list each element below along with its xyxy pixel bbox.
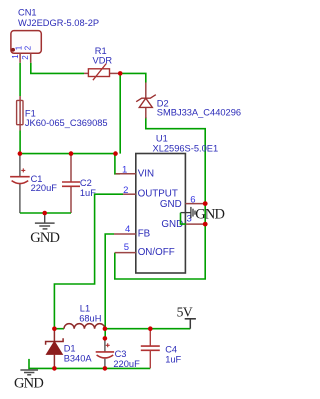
- junction D1 anode on ground rail: [52, 366, 57, 371]
- junction C3 bottom on ground rail: [103, 366, 108, 371]
- junction L1/FB output node: [103, 326, 108, 331]
- wire FB down to output node: [105, 234, 114, 338]
- svg-text:R1: R1: [95, 46, 107, 56]
- pin 1 VIN: [116, 173, 136, 175]
- wire rail to VIN pin: [115, 154, 120, 174]
- wire left gnd stub: [28, 359, 30, 370]
- junction R1/D2/VIN node: [118, 71, 123, 76]
- svg-text:U1: U1: [156, 134, 168, 144]
- capacitor C3: [96, 338, 140, 369]
- wire R1 to node A: [118, 73, 146, 82]
- svg-text:220uF: 220uF: [31, 183, 58, 193]
- varistor R1: [84, 46, 118, 80]
- power flag 5V: [177, 305, 196, 329]
- junction C2 on VIN rail: [69, 151, 74, 156]
- pin 4 FB: [114, 233, 136, 235]
- svg-text:ON/OFF: ON/OFF: [138, 247, 175, 258]
- junction dot gnd rail: [42, 211, 47, 216]
- svg-text:2: 2: [24, 45, 33, 50]
- svg-text:68uH: 68uH: [79, 313, 101, 323]
- fuse F1: [17, 96, 108, 131]
- svg-text:2: 2: [123, 185, 128, 196]
- svg-text:GND: GND: [160, 199, 182, 210]
- svg-text:1uF: 1uF: [80, 188, 96, 198]
- junction F1/C1 on VIN rail: [18, 151, 23, 156]
- svg-text:GND: GND: [14, 376, 43, 392]
- svg-text:1: 1: [15, 45, 24, 50]
- svg-text:F1: F1: [25, 108, 36, 118]
- svg-text:2: 2: [21, 55, 30, 60]
- junction C3 top: [103, 336, 108, 341]
- svg-text:FB: FB: [138, 229, 151, 240]
- svg-text:CN1: CN1: [18, 7, 37, 17]
- pin 6 GND: [185, 203, 205, 205]
- wire C1 C2 bottom rail: [20, 212, 71, 214]
- ground C1C2: [30, 213, 59, 246]
- wire CN1 pin1 down to F1 and rail: [19, 63, 21, 96]
- svg-text:VDR: VDR: [93, 56, 113, 66]
- junction pin3 GND net: [203, 222, 208, 227]
- junction VIN rail corner: [113, 151, 118, 156]
- svg-text:WJ2EDGR-5.08-2P: WJ2EDGR-5.08-2P: [18, 18, 99, 28]
- wire OUTPUT to switch node: [54, 194, 123, 329]
- svg-text:XL2596S-5.0E1: XL2596S-5.0E1: [153, 144, 219, 154]
- svg-text:4: 4: [125, 224, 130, 235]
- wire bottom ground rail: [29, 367, 150, 369]
- capacitor C2: [62, 154, 96, 213]
- svg-text:VIN: VIN: [138, 168, 154, 179]
- svg-text:5V: 5V: [177, 305, 193, 320]
- svg-text:D1: D1: [64, 344, 76, 354]
- pin 3 GND: [185, 223, 205, 225]
- svg-text:1: 1: [11, 54, 20, 59]
- svg-text:C4: C4: [165, 344, 177, 354]
- pin 2 OUTPUT: [123, 193, 136, 195]
- svg-text:OUTPUT: OUTPUT: [138, 189, 178, 200]
- svg-text:C2: C2: [80, 178, 92, 188]
- wire output rail to 5V: [105, 328, 190, 330]
- capacitor C4: [141, 329, 182, 369]
- junction switch node D1/L1: [52, 326, 57, 331]
- wire switch rail to L1: [54, 328, 64, 330]
- inductor L1: [64, 304, 105, 329]
- wire D2 anode to GND net, down right side, to ON/OFF: [115, 117, 205, 279]
- junction pin6 GND net: [203, 201, 208, 206]
- connector CN1: [11, 31, 41, 63]
- svg-text:C3: C3: [115, 349, 127, 359]
- wire right gnd hook: [181, 213, 187, 224]
- svg-text:1uF: 1uF: [165, 354, 181, 364]
- capacitor C1: [10, 155, 57, 213]
- svg-text:6: 6: [190, 195, 195, 206]
- junction C4 top: [148, 326, 153, 331]
- svg-text:L1: L1: [80, 304, 90, 314]
- TVS diode D2: [136, 83, 241, 119]
- IC U1: [114, 134, 218, 273]
- svg-text:JK60-065_C369085: JK60-065_C369085: [25, 118, 108, 128]
- svg-text:5: 5: [124, 242, 129, 253]
- wire node A down to VIN rail: [119, 73, 121, 153]
- svg-text:GND: GND: [30, 230, 59, 246]
- ground bottom left: [14, 370, 43, 392]
- svg-text:B340A: B340A: [64, 354, 93, 364]
- svg-text:220uF: 220uF: [113, 359, 140, 369]
- ground right (GND pins): [181, 207, 225, 223]
- svg-text:SMBJ33A_C440296: SMBJ33A_C440296: [157, 108, 241, 118]
- pin 5 ON/OFF: [115, 252, 136, 254]
- svg-text:GND: GND: [195, 207, 224, 223]
- wire VIN rail: [20, 153, 116, 155]
- svg-text:1: 1: [122, 164, 127, 175]
- wire CN1 pin2 to R1: [31, 63, 84, 74]
- schottky diode D1: [46, 329, 93, 369]
